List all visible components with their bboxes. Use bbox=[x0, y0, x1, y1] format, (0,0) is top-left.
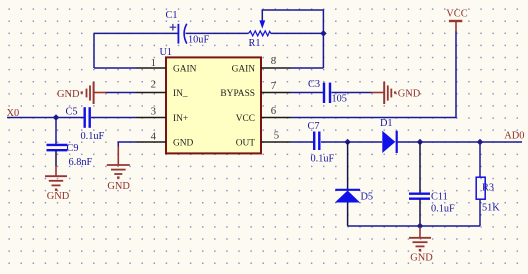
wire pin4 to ground bbox=[118, 142, 136, 147]
capacitor C7 bbox=[314, 132, 319, 151]
junction D5 branch bbox=[344, 139, 351, 146]
svg-text:GND: GND bbox=[173, 139, 194, 149]
junction X0/C9 bbox=[53, 114, 60, 121]
svg-text:51K: 51K bbox=[482, 202, 500, 213]
wire R1 to junction bbox=[271, 32, 324, 34]
capacitor C9 bbox=[47, 145, 68, 150]
svg-text:4: 4 bbox=[151, 131, 157, 143]
wire D5 to rail bbox=[347, 203, 349, 227]
pin 2 bbox=[136, 92, 166, 94]
svg-text:0.1uF: 0.1uF bbox=[311, 153, 335, 164]
wire C3 to GND port bbox=[332, 92, 372, 94]
svg-text:0.1uF: 0.1uF bbox=[81, 131, 105, 142]
svg-text:C11: C11 bbox=[431, 192, 448, 203]
wire C1 right plate to R1 bbox=[186, 32, 249, 34]
svg-text:2: 2 bbox=[151, 79, 156, 91]
wire R3 to rail bbox=[479, 199, 481, 226]
power VCC bbox=[449, 21, 462, 32]
pin 1 bbox=[136, 67, 166, 69]
capacitor C11 bbox=[409, 194, 430, 199]
wire X0 to C5 bbox=[7, 117, 84, 119]
capacitor C1 bbox=[170, 24, 187, 44]
pin 8 bbox=[261, 67, 291, 69]
pin 4 bbox=[136, 141, 166, 143]
svg-text:AD0: AD0 bbox=[504, 131, 524, 142]
resistor R3 bbox=[476, 177, 485, 199]
svg-text:105: 105 bbox=[332, 93, 347, 104]
junction R3 branch bbox=[477, 139, 484, 146]
svg-text:GND: GND bbox=[47, 191, 70, 202]
svg-text:6: 6 bbox=[271, 105, 277, 117]
svg-text:10uF: 10uF bbox=[188, 34, 209, 45]
svg-text:GND: GND bbox=[398, 89, 421, 100]
svg-text:C3: C3 bbox=[308, 79, 320, 90]
svg-text:C5: C5 bbox=[66, 107, 78, 118]
svg-text:GAIN: GAIN bbox=[232, 65, 256, 75]
wire C11 to rail bbox=[419, 199, 421, 226]
ground at pin 4 bbox=[107, 147, 130, 175]
diode D1 bbox=[382, 131, 396, 153]
svg-text:U1: U1 bbox=[160, 47, 173, 58]
svg-text:IN_: IN_ bbox=[173, 89, 188, 99]
svg-text:C1: C1 bbox=[166, 10, 178, 21]
svg-text:7: 7 bbox=[271, 80, 277, 92]
svg-text:6.8nF: 6.8nF bbox=[69, 157, 93, 168]
wire pin1 horizontal to loop bbox=[94, 67, 136, 69]
svg-text:C7: C7 bbox=[308, 121, 320, 132]
capacitor C3 bbox=[324, 83, 330, 103]
wire bottom rail bbox=[348, 225, 480, 227]
wire C1 loop left vertical bbox=[93, 33, 95, 68]
wire down to R3 bbox=[479, 142, 481, 177]
power port GND right of C3 bbox=[372, 82, 392, 104]
diode D5 bbox=[335, 190, 360, 203]
wire pin5 to C7 bbox=[291, 141, 314, 143]
op-amp U1 bbox=[166, 57, 261, 153]
junction ground rail bbox=[417, 223, 424, 230]
svg-text:IN+: IN+ bbox=[173, 114, 188, 124]
svg-text:3: 3 bbox=[151, 105, 156, 117]
svg-text:C9: C9 bbox=[67, 143, 79, 154]
svg-text:5: 5 bbox=[274, 129, 279, 141]
wire R1 wiper loop bbox=[262, 10, 323, 68]
svg-text:GAIN: GAIN bbox=[173, 65, 197, 75]
wire down to C11 bbox=[419, 142, 421, 194]
wire down to D5 bbox=[347, 142, 349, 190]
svg-text:VCC: VCC bbox=[236, 114, 255, 124]
svg-text:R3: R3 bbox=[482, 182, 494, 193]
svg-text:GND: GND bbox=[410, 252, 433, 263]
svg-text:VCC: VCC bbox=[446, 9, 467, 20]
ground below C9 bbox=[45, 166, 67, 185]
svg-text:D1: D1 bbox=[380, 118, 393, 129]
svg-text:D5: D5 bbox=[361, 191, 374, 202]
wire C7 to D1 bbox=[321, 141, 382, 143]
svg-text:8: 8 bbox=[271, 55, 276, 67]
wire pin8 to loop bbox=[291, 67, 323, 69]
svg-text:R1: R1 bbox=[249, 38, 261, 49]
pin 6 bbox=[261, 117, 291, 119]
svg-text:GND: GND bbox=[57, 89, 80, 100]
junction C11 branch bbox=[417, 139, 424, 146]
wire pin7 to C3 bbox=[291, 92, 324, 94]
pin 5 bbox=[261, 141, 291, 143]
wire GND port to pin2 bbox=[106, 92, 136, 94]
wire C9 to ground bbox=[55, 150, 57, 166]
svg-text:OUT: OUT bbox=[236, 139, 256, 149]
pin 3 bbox=[136, 117, 166, 119]
capacitor C5 bbox=[85, 107, 90, 128]
svg-text:BYPASS: BYPASS bbox=[220, 89, 255, 99]
wire C5 to pin3 bbox=[91, 117, 136, 119]
resistor R1 (pot) bbox=[249, 20, 271, 36]
pin 7 bbox=[261, 92, 291, 94]
svg-text:1: 1 bbox=[151, 57, 156, 69]
svg-text:0.1uF: 0.1uF bbox=[431, 204, 455, 215]
svg-text:GND: GND bbox=[107, 181, 130, 192]
wire D1 to AD0 bbox=[397, 141, 522, 143]
power port GND at pin 2 bbox=[87, 82, 107, 104]
wire pin6 to VCC bbox=[291, 31, 456, 118]
junction R1 top bbox=[320, 30, 327, 37]
wire junction down to C9 bbox=[55, 118, 57, 145]
wire loop top to C1 left plate bbox=[94, 32, 178, 34]
ground below C11 bbox=[409, 227, 431, 246]
